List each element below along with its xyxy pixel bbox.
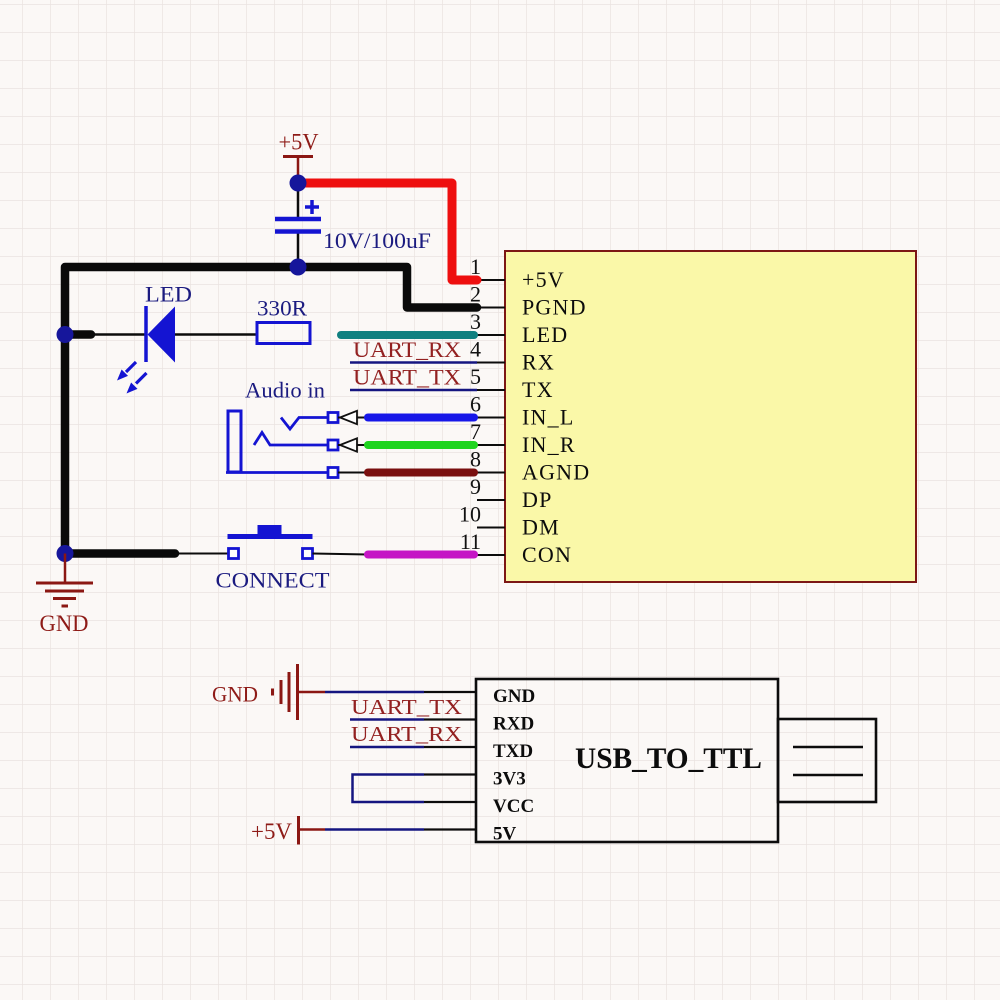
wire AGND maroon thick — [368, 469, 474, 477]
jack terminal square IN_R — [328, 440, 338, 450]
jack sleeve wire (AGND) — [226, 471, 328, 474]
wire LED anode to resistor — [175, 333, 256, 336]
svg-text:Audio in: Audio in — [245, 378, 325, 403]
jack ring contact (IN_R) — [254, 433, 328, 446]
svg-text:DP: DP — [522, 487, 553, 512]
svg-text:LED: LED — [522, 322, 568, 347]
pin 7 stub — [477, 444, 505, 446]
wire cap leads (thin black) — [297, 183, 300, 218]
svg-text:CONNECT: CONNECT — [216, 568, 331, 593]
wire TX navy — [350, 389, 477, 392]
wire +5V red to pin 1 — [298, 183, 477, 280]
junction node at +5V — [290, 175, 307, 192]
input arrow IN_L — [340, 411, 357, 424]
wire black between square and wire IN_R — [338, 444, 368, 446]
wire CON magenta thick — [368, 551, 474, 559]
wire IN_L blue thick — [368, 414, 474, 422]
chip U1 (Bluetooth audio module) body — [505, 251, 916, 582]
svg-text:3V3: 3V3 — [493, 769, 526, 790]
pin 1 stub — [477, 279, 505, 281]
pin 10 stub — [477, 527, 505, 529]
pin 4 stub — [477, 362, 505, 364]
svg-text:UART_RX: UART_RX — [351, 722, 462, 746]
pin 11 stub — [477, 554, 505, 556]
wire LED net teal — [341, 331, 474, 339]
wire black between square and wire AGND — [338, 472, 368, 474]
svg-text:6: 6 — [470, 392, 481, 417]
wire RXD navy — [350, 718, 424, 721]
svg-text:GND: GND — [493, 686, 535, 707]
svg-text:11: 11 — [460, 529, 481, 554]
jack terminal square IN_L — [328, 413, 338, 423]
svg-text:330R: 330R — [257, 296, 307, 321]
svg-text:RXD: RXD — [493, 714, 534, 735]
svg-text:7: 7 — [470, 419, 481, 444]
svg-text:TXD: TXD — [493, 741, 533, 762]
svg-text:8: 8 — [470, 447, 481, 472]
svg-text:+5V: +5V — [251, 819, 292, 844]
wire IN_R green thick — [368, 441, 474, 449]
svg-text:IN_L: IN_L — [522, 405, 574, 430]
svg-text:UART_TX: UART_TX — [351, 695, 462, 719]
capacitor plus sign — [305, 200, 319, 214]
svg-text:VCC: VCC — [493, 796, 534, 817]
svg-text:GND: GND — [40, 611, 89, 636]
ground symbol sideways — [273, 664, 326, 720]
svg-text:2: 2 — [470, 282, 481, 307]
wire black between square and wire IN_L — [338, 417, 368, 419]
svg-text:IN_R: IN_R — [522, 432, 576, 457]
pushbutton S1 contacts — [229, 549, 239, 559]
wire 3V3-VCC loop navy — [353, 775, 425, 803]
svg-text:4: 4 — [470, 337, 481, 362]
pushbutton S1 bar and actuator — [228, 525, 313, 537]
LED D1 — [146, 306, 175, 363]
wire RX navy — [350, 361, 477, 364]
wire black thin to button — [175, 553, 229, 555]
wire PGND bottom thick to button — [65, 549, 175, 558]
svg-text:1: 1 — [470, 254, 481, 279]
resistor R1 330R — [257, 323, 310, 344]
capacitor C1 plates — [275, 219, 321, 232]
svg-text:3: 3 — [470, 309, 481, 334]
ground symbol GND — [36, 554, 93, 607]
jack tip contact (IN_L) — [281, 418, 328, 430]
LED light arrows — [117, 362, 147, 394]
wire PGND thick black rail — [65, 267, 477, 554]
USB plug connector — [778, 719, 876, 802]
pin 2 stub — [477, 307, 505, 309]
pin 3 stub — [477, 334, 505, 336]
svg-text:AGND: AGND — [522, 460, 590, 485]
pin 6 stub — [477, 417, 505, 419]
wire LED cathode thin — [94, 333, 146, 336]
svg-text:5: 5 — [470, 364, 481, 389]
svg-text:UART_TX: UART_TX — [353, 365, 461, 390]
wire LED stub thick — [65, 330, 91, 339]
pin stub VCC — [424, 801, 476, 803]
power symbol +5V bar — [283, 157, 313, 184]
wire black thin from button — [313, 554, 369, 555]
junction node at cap/PGND — [290, 259, 307, 276]
pin stub 5V — [424, 828, 476, 830]
svg-text:UART_RX: UART_RX — [353, 337, 461, 362]
pin stub RXD — [424, 718, 476, 720]
svg-text:LED: LED — [145, 282, 192, 307]
svg-text:GND: GND — [212, 682, 258, 707]
pin stub TXD — [424, 746, 476, 748]
svg-text:9: 9 — [470, 474, 481, 499]
svg-text:RX: RX — [522, 350, 555, 375]
pin stub GND — [424, 691, 476, 693]
svg-text:5V: 5V — [493, 824, 517, 845]
svg-text:+5V: +5V — [279, 130, 319, 155]
pin stub 3V3 — [424, 773, 476, 775]
wire TXD navy — [350, 746, 424, 749]
svg-text:CON: CON — [522, 542, 572, 567]
pin 8 stub — [477, 472, 505, 474]
junction node bottom left — [57, 545, 74, 562]
audio jack J1 body — [228, 411, 241, 472]
svg-text:TX: TX — [522, 377, 554, 402]
pin 9 stub — [477, 499, 505, 501]
svg-text:PGND: PGND — [522, 295, 587, 320]
power bar +5V (bottom) — [299, 816, 326, 845]
wire GND navy — [325, 691, 424, 694]
svg-text:10: 10 — [459, 502, 481, 527]
svg-text:USB_TO_TTL: USB_TO_TTL — [575, 742, 762, 775]
input arrow IN_R — [340, 438, 357, 451]
svg-text:10V/100uF: 10V/100uF — [323, 228, 431, 253]
pin 5 stub — [477, 389, 505, 391]
svg-text:+5V: +5V — [522, 267, 565, 292]
junction node at LED row — [57, 326, 74, 343]
jack terminal square AGND — [328, 468, 338, 478]
wire 5V navy — [325, 828, 424, 831]
svg-text:DM: DM — [522, 515, 560, 540]
USB_TO_TTL module box — [476, 679, 778, 842]
